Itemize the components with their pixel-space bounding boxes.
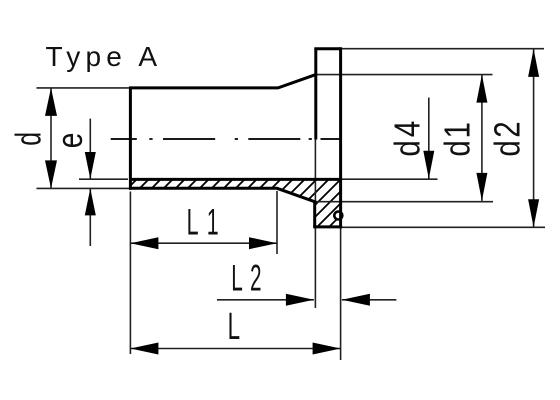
svg-text:d1: d1 [437, 120, 477, 156]
L2 extension line (cone base) [314, 140, 316, 202]
svg-text:Type A: Type A [46, 41, 163, 72]
e upper arrow shaft [89, 119, 91, 179]
d2 bottom arrow (down) [528, 199, 539, 227]
part outline (thick) [129, 47, 342, 228]
tube top edge + taper [129, 75, 316, 88]
L2 dimension line left part [217, 299, 314, 301]
e lower arrow (up) [85, 188, 96, 215]
svg-text:L: L [228, 305, 240, 348]
d2 top extension line [342, 48, 544, 50]
d bottom arrow (down) [45, 160, 57, 188]
L2 right arrow (left) [342, 294, 370, 306]
collar left face [314, 49, 317, 140]
d top arrow (up) [45, 88, 57, 116]
L1 extension line [276, 191, 278, 254]
L2 dimension line right part [342, 299, 397, 301]
arrowheads [45, 49, 539, 355]
svg-text:L1: L1 [187, 203, 227, 243]
cone base vertical [313, 201, 316, 227]
d bottom extension line [37, 187, 130, 189]
svg-text:L2: L2 [231, 259, 269, 300]
d2 dimension line [533, 49, 535, 227]
d1 top extension line [317, 74, 493, 76]
d4 dimension line [428, 98, 430, 179]
svg-text:d4: d4 [387, 118, 427, 157]
e upper arrow (down) [85, 152, 96, 179]
thin lines: extension + dimension lines [37, 49, 546, 360]
e lower arrow shaft [89, 188, 91, 246]
collar top edge [314, 47, 340, 50]
centerline [111, 138, 342, 140]
d1 bottom extension line [316, 201, 493, 203]
d1 dimension line [481, 75, 483, 201]
e extension line [79, 178, 128, 180]
d4 extension line (bore continued) [341, 178, 438, 180]
small circle detail (o-ring) [334, 212, 342, 220]
L left arrow (left) [130, 343, 158, 355]
svg-text:e: e [49, 133, 89, 149]
L right arrow (right) [313, 343, 341, 355]
svg-text:d: d [8, 132, 49, 146]
right extension line below collar [340, 229, 342, 361]
L1 left arrow (left) [130, 237, 158, 249]
left extension line below tube [129, 192, 131, 355]
d1 top arrow (up) [476, 75, 487, 103]
d2 bottom extension line [342, 226, 545, 228]
L1 dimension line [130, 242, 277, 244]
hatch region: wall cross-section [130, 179, 340, 227]
dimension line d [50, 88, 52, 188]
L1 right arrow (right) [249, 237, 277, 249]
L dimension line [130, 348, 340, 350]
d4 arrow (down) [423, 151, 434, 179]
d2 top arrow (up) [528, 49, 539, 77]
bore line (section) [129, 178, 341, 181]
L2 left arrow (right) [286, 294, 314, 306]
collar right face [339, 47, 342, 228]
collar bottom edge [313, 225, 342, 228]
tube left edge [129, 87, 132, 190]
tube outer bottom + taper bottom [129, 188, 315, 201]
d top extension line [37, 87, 130, 89]
svg-text:d2: d2 [487, 119, 527, 157]
d1 bottom arrow (down) [476, 173, 487, 201]
